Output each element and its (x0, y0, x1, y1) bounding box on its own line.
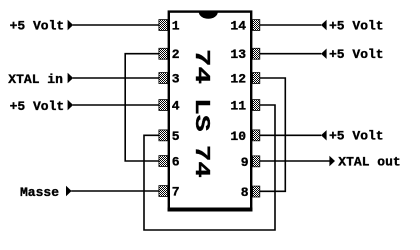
IC U1 body (74LS74) (168, 12, 253, 211)
svg-text:6: 6 (172, 155, 180, 170)
svg-text:13: 13 (230, 47, 246, 62)
svg-text:12: 12 (230, 72, 246, 87)
svg-text:10: 10 (230, 129, 246, 144)
wire pin 14 to +5 Volt (260, 24, 322, 26)
wire pin 5 to pin 11 (bottom route) (144, 105, 275, 230)
svg-text:3: 3 (172, 72, 180, 87)
svg-text:74: 74 (189, 145, 213, 178)
pin 6 pad (159, 156, 168, 167)
pin 1 pad (159, 20, 168, 31)
svg-text:+5 Volt: +5 Volt (329, 18, 384, 33)
svg-text:8: 8 (241, 185, 249, 200)
wire pin 3 to XTAL in (73, 77, 160, 79)
pin 2 pad (159, 48, 168, 59)
svg-text:4: 4 (172, 99, 180, 114)
wire pin 13 to +5 Volt (260, 53, 322, 55)
pin 13 pad (253, 48, 260, 59)
svg-text:74: 74 (189, 49, 213, 84)
pin 12 pad (253, 73, 260, 84)
svg-text:7: 7 (172, 185, 180, 200)
label +5 Volt (pin 4) with arrow (10, 99, 74, 114)
svg-text:9: 9 (241, 155, 249, 170)
svg-text:14: 14 (230, 19, 246, 34)
wire pin 9 to XTAL out (260, 160, 330, 162)
label XTAL in (pin 3) with arrow (8, 72, 73, 87)
label XTAL out (pin 9) with arrow (329, 155, 400, 170)
IC notch (pin-1 index) (199, 12, 218, 19)
svg-text:5: 5 (172, 129, 180, 144)
svg-text:XTAL in: XTAL in (8, 72, 63, 87)
wire pin 7 to Masse (71, 190, 159, 192)
svg-text:+5 Volt: +5 Volt (329, 129, 384, 144)
svg-text:Masse: Masse (20, 185, 59, 200)
label Masse (pin 7) with arrow (20, 185, 72, 200)
svg-text:2: 2 (172, 47, 180, 62)
pin 5 pad (159, 130, 168, 141)
wire pin 4 to +5 Volt (73, 104, 160, 106)
svg-text:+5 Volt: +5 Volt (329, 47, 384, 62)
svg-text:+5 Volt: +5 Volt (10, 18, 65, 33)
pin 8 pad (253, 186, 260, 197)
label +5 Volt (pin 10) with arrow (321, 129, 384, 144)
pin 11 pad (253, 100, 260, 111)
wire pin 1 to +5 Volt (73, 24, 160, 26)
svg-text:1: 1 (172, 19, 180, 34)
label +5 Volt (pin 13) with arrow (321, 47, 384, 62)
pin 7 pad (159, 186, 168, 197)
wire pin 10 to +5 Volt (260, 134, 322, 136)
label +5 Volt (pin 14) with arrow (321, 18, 384, 33)
pin 4 pad (159, 100, 168, 111)
svg-text:LS: LS (189, 98, 213, 132)
pin 10 pad (253, 130, 260, 141)
wire pin 2 to pin 6 (125, 54, 159, 161)
svg-text:11: 11 (230, 99, 246, 114)
IC label 74 LS 74 (rotated) (189, 49, 213, 178)
label +5 Volt (pin 1) with arrow (10, 18, 74, 33)
pin 3 pad (159, 73, 168, 84)
svg-text:XTAL out: XTAL out (338, 155, 400, 170)
pin 9 pad (253, 156, 260, 167)
svg-text:+5 Volt: +5 Volt (10, 99, 65, 114)
pin 14 pad (253, 20, 260, 31)
wire pin 12 to pin 8 (260, 78, 286, 191)
